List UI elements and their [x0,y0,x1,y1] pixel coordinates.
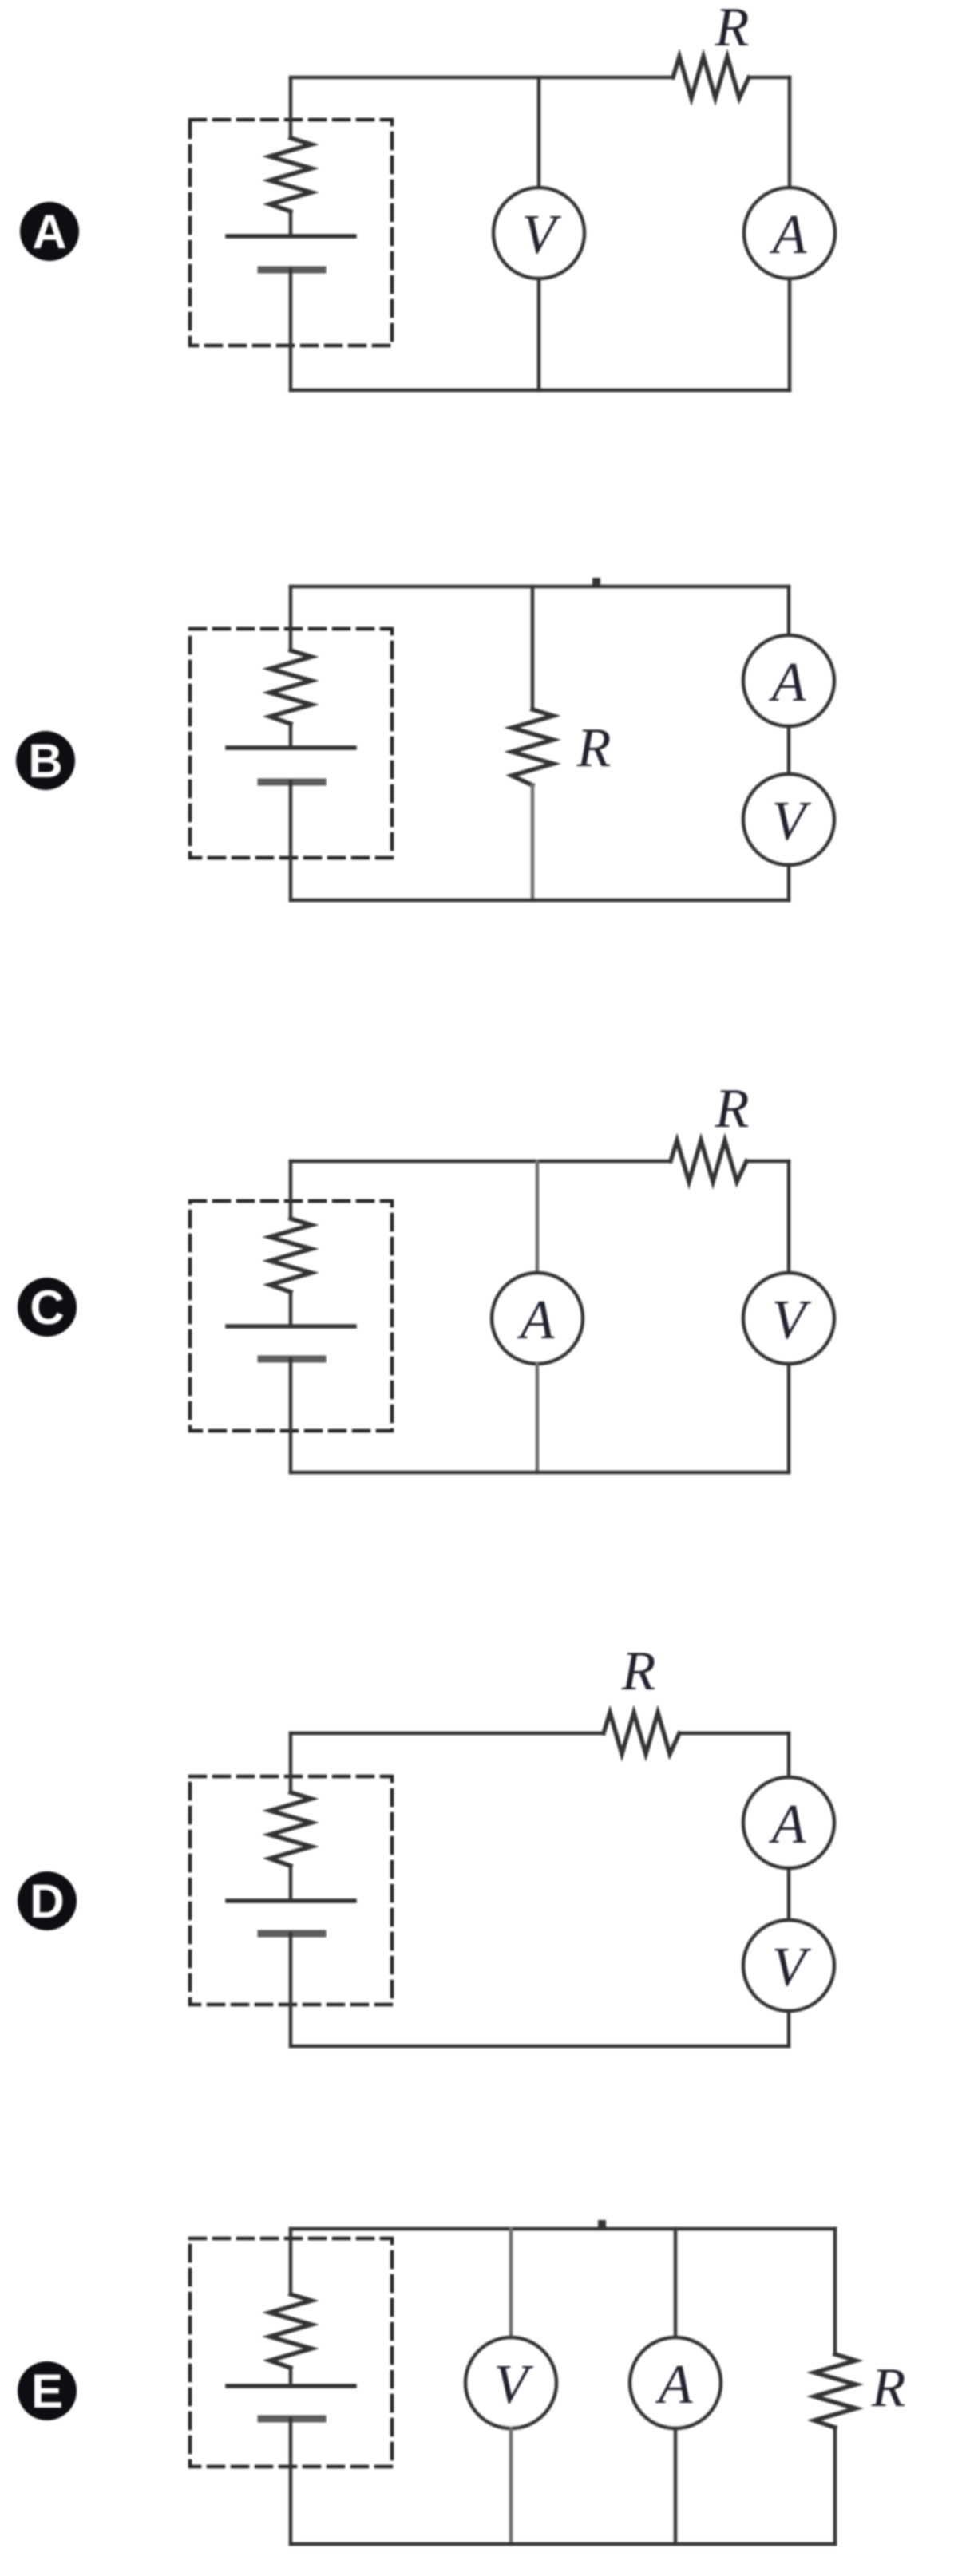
voltmeter V [743,1920,834,2011]
svg-text:C: C [30,1281,64,1334]
wire: voltmeter branch lower [509,2428,513,2544]
wire: top left segment [291,1160,671,1164]
wire: bottom [291,2045,789,2049]
battery positive plate (long) [228,1324,354,1329]
wire: top left segment [291,76,673,80]
wire: right branch lower [787,2011,791,2046]
answer option badge C [18,1278,77,1337]
wire: battery branch lower segment [289,1934,293,2046]
svg-text:A: A [655,2354,693,2416]
wire: right branch upper [787,587,791,635]
wire: resistor to battery plate [289,1866,293,1901]
internal resistance r (zigzag) [270,1792,311,1866]
dashed box: battery with internal resistance [190,629,392,858]
svg-text:E: E [31,2365,63,2418]
dashed box: battery with internal resistance [190,120,392,346]
wire: battery branch upper segment [289,79,293,138]
answer option badge D [18,1871,77,1930]
svg-text:V: V [494,2354,534,2416]
wire: between ammeter and voltmeter [787,1868,791,1920]
resistor R (series, top wire) [673,57,749,98]
wire: top right segment [749,76,790,80]
voltmeter V [743,1273,834,1364]
junction nub on top wire [592,578,600,587]
resistor R (series, top wire) [604,1713,679,1754]
svg-text:A: A [769,1794,806,1855]
wire: bottom [291,1471,789,1475]
resistor R (middle branch) [512,709,553,785]
wire: bottom [291,389,790,393]
wire: voltmeter branch upper [509,2229,513,2337]
battery negative plate (short, thick) [261,779,323,786]
svg-text:D: D [30,1875,64,1928]
answer option badge A [20,202,79,261]
battery negative plate (short, thick) [261,1356,323,1363]
svg-text:R: R [715,1078,750,1140]
wire: battery branch lower segment [289,2419,293,2544]
wire: resistor to battery plate [289,2368,293,2386]
wire: right branch upper [788,77,792,188]
wire: battery branch lower segment [289,782,293,900]
wire: top [291,2227,835,2231]
dashed box: battery with internal resistance [190,1201,392,1431]
battery negative plate (short, thick) [261,1930,323,1938]
voltmeter V [493,188,584,279]
svg-text:V: V [772,791,812,852]
wire: middle branch upper [531,587,535,709]
internal resistance r (zigzag) [270,1219,311,1292]
svg-text:A: A [769,652,806,713]
resistor R (series, top wire) [671,1140,746,1182]
wire: right branch lower [787,865,791,900]
voltmeter V [743,774,834,865]
wire: battery branch upper segment [289,1733,293,1792]
internal resistance r (zigzag) [270,138,311,211]
svg-text:A: A [32,205,66,259]
battery positive plate (long) [228,234,354,239]
wire: resistor to battery plate [289,211,293,236]
svg-text:V: V [772,1290,812,1351]
ammeter A [743,635,834,726]
wire: between ammeter and voltmeter [787,726,791,774]
wire: ammeter branch lower [674,2428,678,2544]
svg-text:R: R [715,0,750,58]
internal resistance r (zigzag) [270,650,311,724]
wire: ammeter branch upper [536,1161,540,1273]
wire: voltmeter branch upper [537,77,541,188]
wire: resistor to battery plate [289,1292,293,1326]
svg-text:V: V [522,204,562,266]
svg-text:A: A [770,204,807,266]
answer option badge E [18,2361,77,2420]
wire: right branch upper [787,1733,791,1777]
battery negative plate (short, thick) [261,2416,323,2423]
wire: top right segment [679,1732,789,1736]
wire: top right segment [746,1160,789,1164]
svg-text:R: R [871,2357,906,2419]
wire: voltmeter branch lower [537,279,541,390]
junction nub on top wire [598,2220,606,2229]
wire: bottom [291,899,789,903]
internal resistance r (zigzag) [270,2294,311,2368]
wire: ammeter branch upper [674,2229,678,2337]
voltmeter V [465,2337,556,2428]
svg-text:R: R [576,717,612,779]
wire: ammeter branch lower [536,1364,540,1472]
wire: voltmeter branch upper [787,1161,791,1273]
wire: battery branch lower segment [289,1359,293,1472]
wire: top left segment [291,1732,604,1736]
svg-text:B: B [28,734,62,788]
ammeter A [630,2337,721,2428]
wire: bottom [291,2542,835,2546]
battery positive plate (long) [228,1898,354,1903]
wire: top [291,585,789,589]
wire: right branch lower [788,279,792,390]
svg-text:R: R [621,1641,656,1702]
wire: voltmeter branch lower [787,1364,791,1472]
ammeter A [744,188,835,279]
wire: right branch lower [833,2428,837,2544]
wire: battery branch upper segment [289,587,293,650]
battery positive plate (long) [228,745,354,750]
wire: battery branch upper segment [289,1161,293,1219]
wire: battery branch upper segment [289,2229,293,2294]
wire: middle branch lower [531,785,535,900]
wire: resistor to battery plate [289,724,293,748]
battery negative plate (short, thick) [261,267,323,274]
ammeter A [743,1777,834,1868]
ammeter A [492,1273,583,1364]
dashed box: battery with internal resistance [190,2238,392,2467]
wire: right branch upper [833,2229,837,2354]
battery positive plate (long) [228,2384,354,2388]
answer option badge B [16,731,75,790]
svg-text:A: A [517,1290,555,1351]
wire: battery branch lower segment [289,270,293,390]
dashed box: battery with internal resistance [190,1776,392,2005]
resistor R (right branch) [814,2354,856,2428]
svg-text:V: V [772,1937,812,1998]
